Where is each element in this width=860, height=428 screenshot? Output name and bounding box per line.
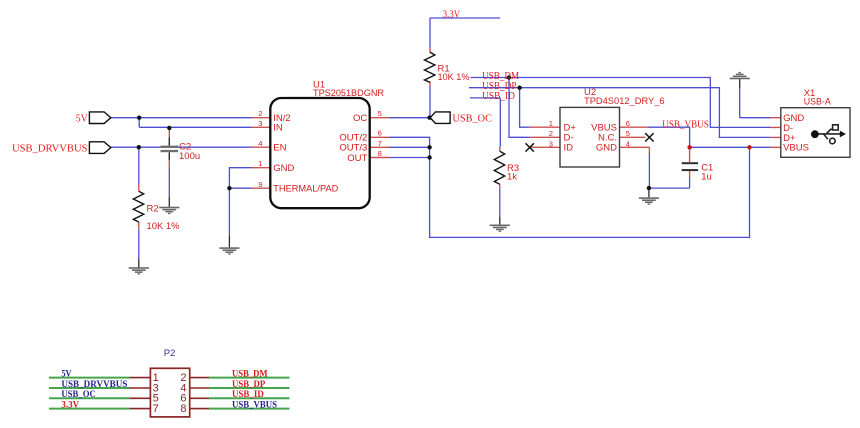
svg-text:P2: P2 bbox=[164, 348, 176, 359]
svg-text:5: 5 bbox=[378, 109, 382, 118]
svg-text:IN: IN bbox=[273, 123, 283, 134]
svg-text:3: 3 bbox=[258, 119, 262, 128]
svg-text:R2: R2 bbox=[147, 203, 159, 214]
svg-text:USB_DRVVBUS: USB_DRVVBUS bbox=[12, 143, 88, 155]
svg-text:8: 8 bbox=[378, 149, 382, 158]
svg-text:USB-A: USB-A bbox=[804, 96, 832, 107]
svg-text:3.3V: 3.3V bbox=[61, 399, 79, 409]
svg-text:1: 1 bbox=[258, 159, 262, 168]
svg-text:10K 1%: 10K 1% bbox=[147, 221, 181, 232]
svg-text:7: 7 bbox=[153, 403, 159, 415]
svg-text:9: 9 bbox=[258, 180, 262, 189]
svg-text:GND: GND bbox=[273, 163, 294, 174]
svg-text:TPD4S012_DRY_6: TPD4S012_DRY_6 bbox=[584, 96, 665, 107]
svg-text:4: 4 bbox=[258, 139, 262, 148]
svg-text:8: 8 bbox=[180, 403, 186, 415]
svg-text:USB_ID: USB_ID bbox=[482, 90, 515, 102]
svg-text:USB_DRVVBUS: USB_DRVVBUS bbox=[61, 379, 127, 389]
svg-text:6: 6 bbox=[378, 129, 382, 138]
svg-text:1: 1 bbox=[549, 119, 553, 128]
svg-text:10K 1%: 10K 1% bbox=[438, 72, 471, 83]
svg-text:GND: GND bbox=[596, 143, 617, 154]
svg-text:3: 3 bbox=[549, 139, 553, 148]
svg-text:EN: EN bbox=[273, 143, 286, 154]
svg-text:5V: 5V bbox=[76, 113, 88, 125]
svg-text:TPS2051BDGNR: TPS2051BDGNR bbox=[313, 88, 384, 99]
svg-text:THERMAL/PAD: THERMAL/PAD bbox=[273, 184, 338, 195]
svg-text:3.3V: 3.3V bbox=[443, 9, 461, 21]
svg-text:OC: OC bbox=[353, 113, 367, 124]
svg-text:4: 4 bbox=[626, 139, 630, 148]
svg-text:USB_DM: USB_DM bbox=[232, 368, 268, 378]
svg-text:USB_VBUS: USB_VBUS bbox=[232, 399, 277, 409]
svg-text:100u: 100u bbox=[179, 151, 200, 162]
svg-text:5V: 5V bbox=[61, 368, 72, 378]
svg-text:USB_OC: USB_OC bbox=[452, 113, 492, 125]
svg-text:1k: 1k bbox=[507, 172, 517, 183]
svg-text:5: 5 bbox=[626, 129, 630, 138]
svg-text:2: 2 bbox=[258, 109, 262, 118]
svg-text:7: 7 bbox=[378, 139, 382, 148]
svg-text:USB_OC: USB_OC bbox=[61, 389, 95, 399]
svg-text:1u: 1u bbox=[701, 171, 712, 182]
svg-text:6: 6 bbox=[626, 119, 630, 128]
svg-text:2: 2 bbox=[549, 129, 553, 138]
svg-text:USB_ID: USB_ID bbox=[232, 389, 264, 399]
svg-text:USB_VBUS: USB_VBUS bbox=[662, 119, 709, 131]
svg-text:OUT: OUT bbox=[347, 153, 367, 164]
svg-text:VBUS: VBUS bbox=[783, 143, 809, 154]
svg-text:USB_DP: USB_DP bbox=[232, 379, 266, 389]
svg-text:ID: ID bbox=[564, 143, 574, 154]
